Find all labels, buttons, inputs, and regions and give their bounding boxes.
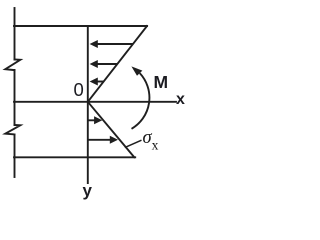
moment arc arrow M [131,66,149,128]
stress arrow upper 3 [90,78,104,86]
label x (axis) [176,91,185,109]
label M (moment) [154,72,169,93]
wire: left beam edge middle segment [14,70,16,125]
stress arrow upper 2 [90,60,118,68]
label sigma_x [143,128,159,154]
break symbol upper zigzag [5,60,20,71]
wire: neutral axis vertical / y axis [87,26,89,183]
wire: left beam edge lower segment [14,135,16,178]
wire: bottom edge of beam [14,156,135,158]
leader line to sigma label [125,140,142,147]
wire: upper stress diagonal [88,26,147,102]
label 0 (origin) [74,79,84,101]
node 0: x axis line [14,101,176,103]
break symbol lower zigzag [5,125,20,135]
stress arrow lower 2 [89,136,119,144]
wire: lower stress diagonal [88,102,135,158]
wire: left beam edge upper segment [14,8,16,60]
stress arrow upper 1 [90,40,133,48]
label y (axis) [83,181,92,201]
stress arrow lower 1 [89,116,103,124]
wire: top edge of beam [14,25,147,27]
